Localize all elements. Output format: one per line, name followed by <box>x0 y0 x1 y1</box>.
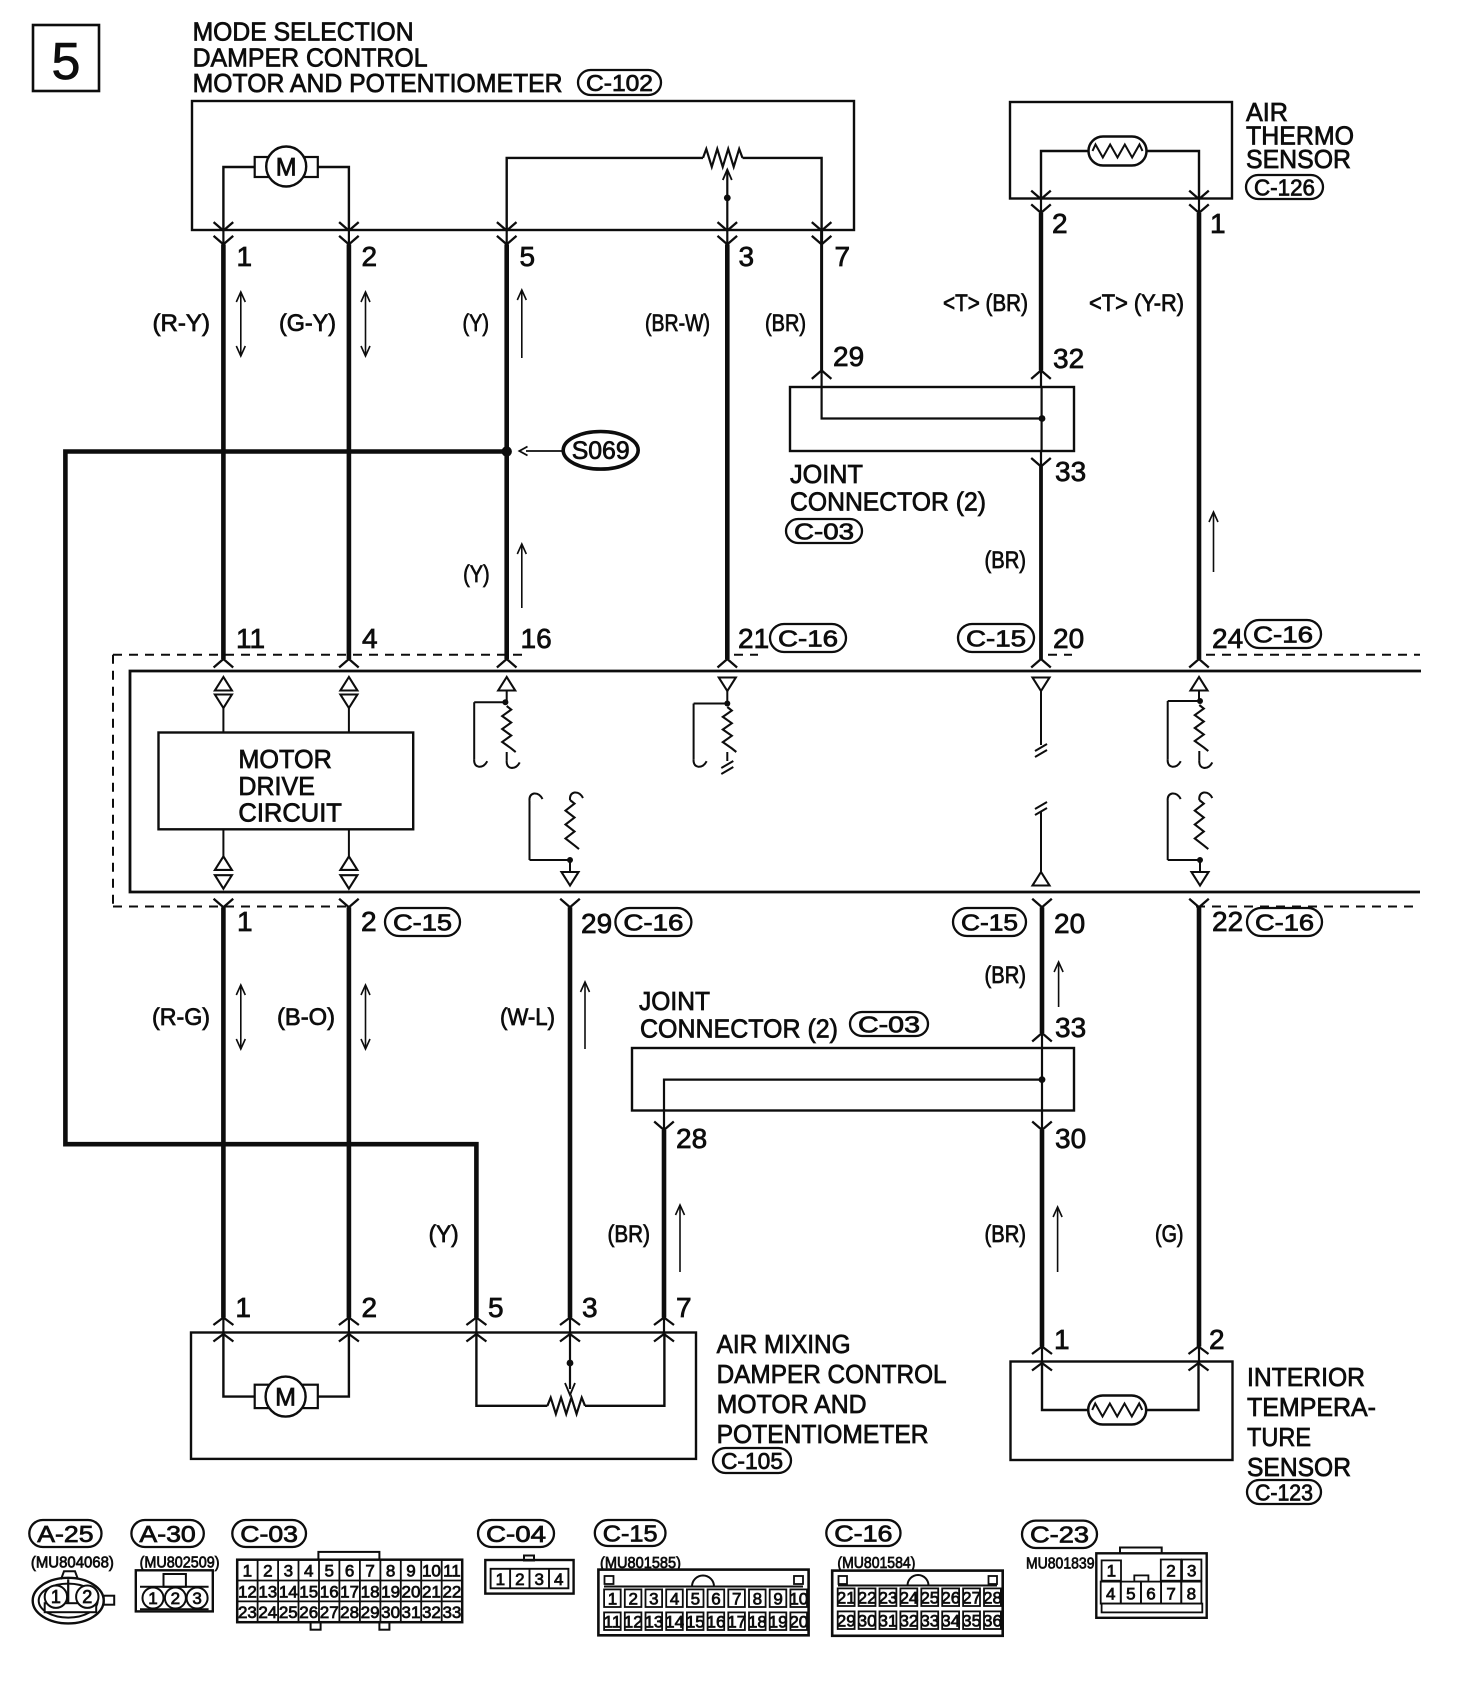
svg-text:(W-L): (W-L) <box>500 1004 555 1031</box>
svg-text:19: 19 <box>381 1582 400 1601</box>
connector label C-126 <box>1246 175 1323 199</box>
svg-text:30: 30 <box>381 1603 400 1622</box>
svg-text:C-105: C-105 <box>721 1448 783 1474</box>
svg-text:28: 28 <box>340 1603 359 1622</box>
svg-text:12: 12 <box>238 1582 257 1601</box>
ECU input symbols for pin 4 <box>340 677 357 733</box>
connector label C-04 <box>478 1520 554 1547</box>
connector C-15 pinout drawing <box>598 1570 808 1636</box>
svg-text:35: 35 <box>962 1612 981 1631</box>
interior temperature sensor pin chevrons <box>1032 1347 1209 1371</box>
air mixing damper control motor and potentiometer box C-105 <box>191 1333 696 1459</box>
svg-text:18: 18 <box>361 1582 380 1601</box>
svg-text:27: 27 <box>962 1589 981 1608</box>
svg-text:3: 3 <box>649 1590 658 1609</box>
svg-text:7: 7 <box>676 1292 692 1323</box>
potentiometer resistor zigzag (C-102) <box>703 149 742 167</box>
svg-text:2: 2 <box>1166 1562 1175 1581</box>
svg-text:1: 1 <box>1210 208 1226 239</box>
direction arrow for (BR) at pin 30 <box>1057 1207 1059 1272</box>
motor drive circuit box <box>159 733 414 830</box>
air thermo sensor pin chevrons <box>1031 191 1209 213</box>
svg-text:6: 6 <box>1146 1585 1155 1604</box>
svg-text:20: 20 <box>402 1582 421 1601</box>
text INTERIOR TEMPERATURE SENSOR <box>1247 1362 1376 1482</box>
potentiometer wiper arrow and wire to pin 3 <box>723 170 732 231</box>
C-102 pin chevrons (pins 1,2,5,3,7) <box>214 222 832 244</box>
connector label A-30 <box>131 1520 203 1547</box>
svg-text:CIRCUIT: CIRCUIT <box>238 798 342 828</box>
chevron into joint connector pin 29 <box>812 370 832 379</box>
svg-text:AIR MIXING: AIR MIXING <box>717 1329 851 1359</box>
svg-text:5: 5 <box>1126 1585 1135 1604</box>
svg-text:23: 23 <box>238 1603 257 1622</box>
svg-text:11: 11 <box>236 623 265 654</box>
svg-text:19: 19 <box>769 1613 788 1632</box>
splice S069 junction dot <box>502 446 512 456</box>
wire <T>(BR) sensor pin2 to joint connector pin 32 <box>1040 199 1042 213</box>
motor M (mode selection damper control motor) <box>255 147 318 187</box>
potentiometer right wire to pin 7 <box>743 158 822 230</box>
svg-text:22: 22 <box>858 1589 877 1608</box>
svg-text:C-102: C-102 <box>586 70 653 96</box>
joint connector 1 inner wire pin 32 to 33 <box>1040 387 1042 451</box>
wire air mixing motor to pin 1 <box>223 1333 254 1397</box>
svg-text:1: 1 <box>235 1292 251 1323</box>
ECU exit chevrons bottom <box>214 899 1209 908</box>
svg-text:32: 32 <box>1053 343 1084 374</box>
wire (BR) pin7 to joint connector pin 29 <box>820 230 823 370</box>
svg-text:1: 1 <box>237 906 253 937</box>
svg-text:C-15: C-15 <box>603 1520 658 1546</box>
svg-text:1: 1 <box>243 1562 252 1581</box>
joint connector 1 junction dot <box>1039 415 1046 422</box>
svg-text:(BR): (BR) <box>765 310 806 337</box>
svg-text:C-16: C-16 <box>1253 621 1313 647</box>
chevron out of joint connector pin 33 <box>1031 458 1051 467</box>
joint connector 2 junction dot <box>1039 1076 1046 1083</box>
ECU internal line for pin 20 (BR ground path) <box>1033 678 1050 886</box>
connector label C-105 <box>713 1448 791 1473</box>
svg-text:C-15: C-15 <box>393 909 452 935</box>
svg-text:4: 4 <box>554 1570 563 1589</box>
svg-text:TEMPERA-: TEMPERA- <box>1247 1392 1376 1422</box>
direction arrow for (W-L) <box>584 982 586 1049</box>
svg-text:3: 3 <box>1187 1562 1196 1581</box>
svg-text:C-23: C-23 <box>1030 1522 1089 1548</box>
svg-text:4: 4 <box>304 1562 313 1581</box>
svg-text:29: 29 <box>833 341 864 372</box>
connector C-16 pinout drawing <box>832 1571 1003 1636</box>
svg-text:30: 30 <box>858 1612 877 1631</box>
svg-text:29: 29 <box>837 1612 856 1631</box>
svg-text:1: 1 <box>608 1590 617 1609</box>
svg-text:C-15: C-15 <box>961 909 1018 935</box>
svg-text:2: 2 <box>628 1590 637 1609</box>
connector label C-16 bottom at pin 29 <box>615 908 691 936</box>
svg-text:8: 8 <box>1187 1585 1196 1604</box>
ECU pull-up resistor at pin 16 <box>474 677 520 768</box>
joint connector (2) C-03 lower box <box>632 1048 1074 1111</box>
svg-text:(BR): (BR) <box>608 1221 651 1248</box>
svg-text:(G): (G) <box>1155 1221 1184 1248</box>
svg-text:6: 6 <box>711 1590 720 1609</box>
potentiometer in C-102 - left wire to pin 5 <box>507 158 703 230</box>
svg-text:(BR): (BR) <box>985 962 1027 989</box>
svg-text:32: 32 <box>899 1612 918 1631</box>
svg-text:2: 2 <box>1209 1324 1225 1355</box>
svg-text:(G-Y): (G-Y) <box>279 310 336 337</box>
ECU output symbols to pin 2 <box>340 829 357 888</box>
wire (BR) joint connector pin 30 to interior temperature sensor pin 1 <box>1041 1111 1043 1131</box>
page number box 5 <box>33 25 99 91</box>
svg-text:C-16: C-16 <box>1255 909 1314 935</box>
ECU output symbols to pin 1 <box>215 829 232 888</box>
direction arrow for (Y) <box>521 290 523 358</box>
ECU dashed boundary top <box>113 654 528 656</box>
svg-text:33: 33 <box>920 1612 939 1631</box>
svg-text:13: 13 <box>258 1582 277 1601</box>
svg-text:M: M <box>275 1384 296 1412</box>
wire (BR) ECU pin20 to joint connector pin 33 lower <box>1040 907 1045 1033</box>
svg-text:DRIVE: DRIVE <box>238 771 315 801</box>
svg-text:MOTOR AND: MOTOR AND <box>717 1389 867 1419</box>
svg-text:16: 16 <box>707 1613 726 1632</box>
ECU pull-down resistor to pin 22 <box>1168 792 1213 885</box>
svg-text:21: 21 <box>837 1589 856 1608</box>
svg-text:8: 8 <box>386 1562 395 1581</box>
wire (BR) joint connector pin 28 to air mixing pot pin 7 <box>663 1111 665 1131</box>
connector label C-03 lower <box>850 1012 928 1036</box>
svg-text:3: 3 <box>582 1292 598 1323</box>
connector C-23 pinout drawing <box>1096 1548 1206 1618</box>
text AIR MIXING DAMPER CONTROL MOTOR AND POTENTIOMETER <box>717 1329 947 1449</box>
svg-text:A-30: A-30 <box>139 1521 195 1547</box>
connector A-30 pinout drawing <box>136 1570 213 1611</box>
joint connector 2 inner wire pin 33 to 30 <box>1041 1048 1043 1111</box>
svg-text:C-16: C-16 <box>623 909 683 935</box>
svg-text:MOTOR: MOTOR <box>238 744 332 774</box>
connector A-25 pinout drawing <box>33 1571 115 1623</box>
connector C-102 component box <box>192 101 854 230</box>
svg-text:7: 7 <box>835 241 851 272</box>
svg-text:S069: S069 <box>572 437 630 465</box>
svg-text:22: 22 <box>1212 906 1243 937</box>
svg-text:29: 29 <box>361 1603 380 1622</box>
wire (R-G) ECU pin1 to air mixing motor pin 1 <box>221 907 226 1317</box>
svg-text:POTENTIOMETER: POTENTIOMETER <box>717 1419 929 1449</box>
svg-text:C-123: C-123 <box>1255 1479 1313 1505</box>
connector label C-16 top at pin 21 <box>770 624 846 652</box>
svg-text:3: 3 <box>192 1589 201 1608</box>
svg-text:33: 33 <box>442 1603 461 1622</box>
svg-text:5: 5 <box>324 1562 333 1581</box>
svg-text:C-03: C-03 <box>794 518 854 544</box>
interior sensor inner wire pin 1 side <box>1042 1362 1088 1411</box>
chevron out of joint connector 2 pin 28 <box>654 1122 674 1131</box>
direction arrow for (R-G) <box>240 985 242 1049</box>
svg-text:C-16: C-16 <box>834 1520 892 1546</box>
svg-text:3: 3 <box>534 1570 543 1589</box>
svg-text:A-25: A-25 <box>37 1521 93 1547</box>
connector label C-03 upper <box>786 519 862 543</box>
air mixing potentiometer wiper from pin 3 <box>565 1333 575 1396</box>
svg-text:1: 1 <box>1107 1562 1116 1581</box>
svg-text:C-126: C-126 <box>1254 174 1315 200</box>
air mixing potentiometer left wire from pin 5 <box>476 1333 547 1406</box>
svg-text:7: 7 <box>1166 1585 1175 1604</box>
chevron into joint connector pin 32 <box>1031 370 1051 379</box>
wire (G-Y) pin2 to ECU pin 4 <box>348 230 350 244</box>
svg-text:(BR-W): (BR-W) <box>645 310 710 337</box>
motor M (air mixing damper control motor) <box>255 1377 318 1417</box>
svg-text:(Y): (Y) <box>429 1221 459 1248</box>
wire (W-L) ECU pin29 to air mixing pot pin 3 <box>568 907 573 1317</box>
svg-text:20: 20 <box>789 1613 808 1632</box>
svg-text:(MU804068): (MU804068) <box>31 1555 114 1572</box>
connector label C-15 bottom at pin 20 <box>953 908 1026 936</box>
ECU dashed boundary left <box>112 655 114 907</box>
wire motor to C-102 pin 1 <box>223 167 254 230</box>
air mixing potentiometer resistor zigzag <box>547 1398 585 1414</box>
svg-text:MOTOR AND POTENTIOMETER: MOTOR AND POTENTIOMETER <box>193 68 563 98</box>
svg-text:5: 5 <box>691 1590 700 1609</box>
connector C-04 pinout drawing <box>485 1556 573 1594</box>
svg-text:CONNECTOR (2): CONNECTOR (2) <box>640 1014 838 1044</box>
air mixing potentiometer right wire from pin 7 <box>585 1333 664 1406</box>
svg-text:20: 20 <box>1054 908 1085 939</box>
connector label C-15 top at pin 20 <box>958 624 1034 652</box>
svg-text:(Y): (Y) <box>463 561 490 588</box>
text JOINT CONNECTOR (2) lower <box>639 986 838 1044</box>
connector label C-16 bottom at pin 22 <box>1247 908 1322 936</box>
svg-text:2: 2 <box>362 241 378 272</box>
svg-text:9: 9 <box>773 1590 782 1609</box>
wire motor to C-102 pin 2 <box>318 167 349 230</box>
svg-text:(BR): (BR) <box>985 547 1027 574</box>
svg-text:2: 2 <box>361 906 377 937</box>
svg-text:26: 26 <box>941 1589 960 1608</box>
svg-text:1: 1 <box>1054 1324 1070 1355</box>
title MODE SELECTION DAMPER CONTROL MOTOR AND POTENTIOMETER <box>193 17 563 99</box>
svg-text:16: 16 <box>521 623 552 654</box>
interior temperature sensor box C-123 <box>1011 1362 1233 1461</box>
svg-text:C-15: C-15 <box>966 625 1026 651</box>
svg-text:24: 24 <box>1212 623 1243 654</box>
svg-text:JOINT: JOINT <box>639 986 710 1016</box>
svg-text:17: 17 <box>340 1582 359 1601</box>
ECU entry chevrons top <box>214 659 1209 668</box>
direction arrow for (G-Y) <box>365 292 367 356</box>
connector label C-16 bottom <box>826 1520 900 1546</box>
svg-text:36: 36 <box>983 1612 1002 1631</box>
connector label A-25 <box>29 1520 101 1547</box>
svg-text:11: 11 <box>443 1562 461 1581</box>
svg-text:33: 33 <box>1055 456 1086 487</box>
svg-text:C-04: C-04 <box>486 1521 546 1547</box>
svg-text:(R-G): (R-G) <box>152 1004 210 1031</box>
interior sensor inner wire pin 2 side <box>1146 1362 1198 1411</box>
svg-text:10: 10 <box>422 1562 441 1581</box>
connector label C-23 <box>1022 1521 1097 1548</box>
svg-text:<T> (BR): <T> (BR) <box>943 290 1028 317</box>
svg-text:24: 24 <box>258 1603 277 1622</box>
svg-text:25: 25 <box>279 1603 298 1622</box>
ECU input symbols for pin 11 <box>215 677 232 733</box>
svg-text:3: 3 <box>284 1562 293 1581</box>
svg-text:11: 11 <box>604 1613 622 1632</box>
svg-text:6: 6 <box>345 1562 354 1581</box>
svg-text:18: 18 <box>748 1613 767 1632</box>
arrow from S069 to junction <box>519 447 562 456</box>
svg-text:5: 5 <box>488 1292 504 1323</box>
thermistor (interior temperature sensor) <box>1088 1396 1146 1425</box>
svg-text:M: M <box>276 154 297 182</box>
direction arrow for (Y-R) <box>1213 512 1215 572</box>
wire (Y) splice S069 branch left and down to air mixing pot pin 5 <box>65 452 506 1318</box>
connector label C-102 <box>578 70 661 96</box>
svg-text:34: 34 <box>941 1612 960 1631</box>
svg-text:4: 4 <box>670 1590 679 1609</box>
svg-text:1: 1 <box>51 1587 61 1607</box>
svg-text:21: 21 <box>422 1582 441 1601</box>
svg-text:17: 17 <box>727 1613 746 1632</box>
wire (B-O) ECU pin2 to air mixing motor pin 2 <box>347 907 352 1317</box>
svg-text:MU801839: MU801839 <box>1026 1555 1095 1572</box>
svg-text:1: 1 <box>148 1589 157 1608</box>
wire (R-Y) pin1 to ECU pin 11 <box>222 230 224 244</box>
connector label C-15 bottom at pin 2 <box>385 908 460 936</box>
connector label C-15 bottom <box>595 1520 666 1546</box>
svg-text:SENSOR: SENSOR <box>1247 1452 1351 1482</box>
svg-text:31: 31 <box>879 1612 898 1631</box>
svg-text:(MU802509): (MU802509) <box>140 1555 220 1572</box>
svg-text:16: 16 <box>320 1582 339 1601</box>
wire air mixing motor to pin 2 <box>318 1333 349 1397</box>
thermistor (air thermo sensor) <box>1089 137 1147 166</box>
splice S069 oval label <box>563 432 638 470</box>
connector label C-123 <box>1247 1480 1321 1504</box>
svg-text:4: 4 <box>1106 1585 1115 1604</box>
air mixing damper pin chevrons <box>213 1318 674 1342</box>
svg-text:28: 28 <box>983 1589 1002 1608</box>
joint connector 2 inner wire to pin 28 <box>664 1080 1042 1111</box>
svg-text:2: 2 <box>362 1292 378 1323</box>
svg-text:15: 15 <box>686 1613 705 1632</box>
joint connector 1 inner wire from pin 29 <box>822 387 1042 419</box>
svg-text:7: 7 <box>365 1562 374 1581</box>
svg-text:(R-Y): (R-Y) <box>153 310 211 337</box>
svg-text:1: 1 <box>237 241 253 272</box>
svg-text:2: 2 <box>515 1570 524 1589</box>
svg-text:DAMPER CONTROL: DAMPER CONTROL <box>717 1359 947 1389</box>
ECU dashed boundary bottom <box>113 906 352 908</box>
svg-text:29: 29 <box>581 908 612 939</box>
ECU pull-down resistor to pin 29 <box>529 792 583 885</box>
svg-text:13: 13 <box>644 1613 663 1632</box>
svg-text:2: 2 <box>171 1589 180 1608</box>
svg-text:<T> (Y-R): <T> (Y-R) <box>1089 290 1184 317</box>
text AIR THERMO SENSOR <box>1246 97 1354 174</box>
ECU pull-up resistor at pin 21 <box>694 678 737 775</box>
wire (BR) joint connector pin 33 to ECU pin 20 <box>1040 451 1042 467</box>
svg-text:14: 14 <box>665 1613 684 1632</box>
svg-text:2: 2 <box>263 1562 272 1581</box>
wire (G) ECU pin22 to interior temperature sensor pin 2 <box>1197 907 1202 1346</box>
direction arrow for (R-Y) <box>240 292 242 356</box>
svg-text:INTERIOR: INTERIOR <box>1247 1362 1365 1392</box>
svg-text:SENSOR: SENSOR <box>1246 144 1351 174</box>
svg-text:33: 33 <box>1055 1012 1086 1043</box>
svg-text:28: 28 <box>676 1123 707 1154</box>
wire (BR-W) pin3 to ECU pin 21 <box>726 230 728 244</box>
connector C-03 pinout drawing <box>237 1552 462 1630</box>
svg-text:4: 4 <box>362 623 378 654</box>
text JOINT CONNECTOR (2) upper <box>790 459 986 517</box>
svg-text:14: 14 <box>279 1582 298 1601</box>
svg-text:TURE: TURE <box>1247 1422 1311 1452</box>
svg-text:(B-O): (B-O) <box>277 1004 335 1031</box>
wire <T>(Y-R) sensor pin1 down to ECU pin 24 <box>1198 199 1200 213</box>
svg-text:25: 25 <box>920 1589 939 1608</box>
svg-text:20: 20 <box>1053 623 1084 654</box>
svg-text:32: 32 <box>422 1603 441 1622</box>
ECU pull-up resistor at pin 24 <box>1168 677 1213 768</box>
connector label C-03 bottom <box>232 1520 306 1547</box>
svg-text:2: 2 <box>82 1587 92 1607</box>
svg-text:31: 31 <box>402 1603 421 1622</box>
svg-text:5: 5 <box>520 241 536 272</box>
direction arrow for (Y) below S069 <box>521 544 523 608</box>
text MOTOR DRIVE CIRCUIT <box>238 744 342 828</box>
svg-text:C-16: C-16 <box>778 625 838 651</box>
svg-text:22: 22 <box>442 1582 461 1601</box>
air thermo sensor inner wire pin 1 side <box>1147 151 1200 199</box>
direction arrow for (B-O) <box>365 985 367 1049</box>
svg-text:(BR): (BR) <box>985 1221 1027 1248</box>
direction arrow for (BR) at pin 28 <box>679 1205 681 1272</box>
connector label C-16 top at pin 24 <box>1245 620 1321 648</box>
air thermo sensor component box <box>1010 102 1232 199</box>
svg-text:CONNECTOR (2): CONNECTOR (2) <box>790 487 986 517</box>
svg-text:C-03: C-03 <box>858 1011 920 1037</box>
svg-text:10: 10 <box>789 1590 808 1609</box>
chevron out of joint connector 2 pin 30 <box>1032 1122 1052 1131</box>
svg-text:5: 5 <box>52 33 81 91</box>
svg-text:21: 21 <box>738 623 769 654</box>
svg-text:C-03: C-03 <box>240 1521 298 1547</box>
air thermo sensor inner wire pin 2 side <box>1041 151 1089 199</box>
svg-text:7: 7 <box>732 1590 741 1609</box>
svg-text:12: 12 <box>624 1613 643 1632</box>
chevron into joint connector 2 pin 33 <box>1032 1033 1052 1042</box>
svg-text:15: 15 <box>299 1582 318 1601</box>
svg-text:9: 9 <box>406 1562 415 1581</box>
svg-text:1: 1 <box>496 1570 505 1589</box>
svg-text:3: 3 <box>739 241 755 272</box>
joint connector (2) C-03 upper box <box>790 387 1074 451</box>
svg-text:27: 27 <box>320 1603 339 1622</box>
svg-text:JOINT: JOINT <box>790 459 863 489</box>
svg-text:23: 23 <box>879 1589 898 1608</box>
svg-text:(Y): (Y) <box>463 310 490 337</box>
direction arrow for (BR) above joint connector 2 <box>1058 962 1060 1007</box>
svg-text:30: 30 <box>1055 1123 1086 1154</box>
svg-text:26: 26 <box>299 1603 318 1622</box>
svg-text:2: 2 <box>1052 208 1068 239</box>
svg-text:8: 8 <box>753 1590 762 1609</box>
ECU solid box <box>130 671 1421 892</box>
